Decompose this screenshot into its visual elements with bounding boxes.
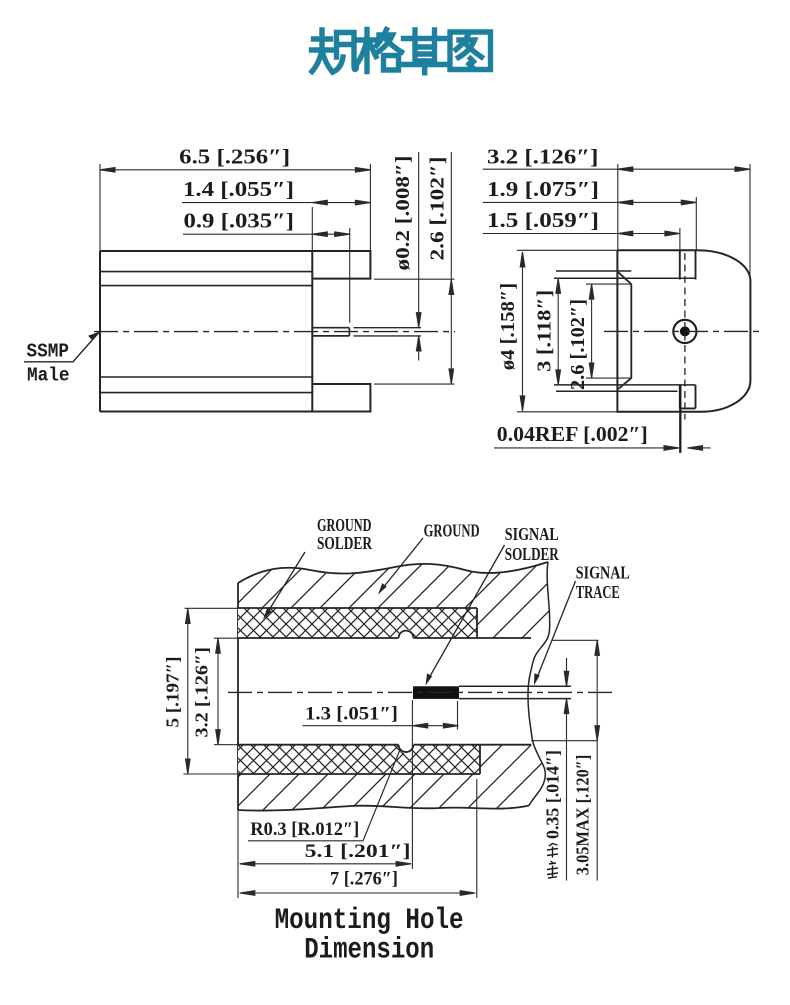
svg-text:SIGNAL: SIGNAL xyxy=(576,563,630,583)
pin extension lines to dia0.2 dim xyxy=(354,328,422,336)
dim 6.5 line xyxy=(100,168,370,173)
centerline bottom view xyxy=(228,691,612,693)
horizontal edge lines right view xyxy=(554,271,696,391)
dim 7 xyxy=(238,779,477,898)
ground solder band bottom (crosshatch) xyxy=(238,745,480,774)
char 格 xyxy=(357,30,402,72)
char 图 xyxy=(450,32,491,70)
dim dia0.2 vertical xyxy=(416,152,421,361)
mounting slot interior (white) xyxy=(238,638,560,745)
dim 1.9 xyxy=(483,197,697,250)
svg-text:0.35 [.014″]: 0.35 [.014″] xyxy=(543,750,563,839)
signal pin circle xyxy=(673,320,696,343)
dim 3.2 vertical xyxy=(214,638,238,745)
center pin xyxy=(312,328,349,336)
svg-text:GROUND: GROUND xyxy=(424,521,480,541)
dim 6.5 extension lines xyxy=(100,164,370,251)
extension lines top edge / bottom edge for dia4 xyxy=(517,250,701,411)
svg-text:6.5 [.256″]: 6.5 [.256″] xyxy=(179,145,290,169)
svg-text:0.9 [.035″]: 0.9 [.035″] xyxy=(184,209,295,233)
horizontal centerline right view xyxy=(604,330,762,332)
dim 1.4 line xyxy=(182,200,370,251)
dim 5.1 xyxy=(240,862,411,867)
svg-text:ø0.2 [.008″]: ø0.2 [.008″] xyxy=(392,156,414,271)
body outline xyxy=(100,251,370,412)
dim 3.05MAX xyxy=(531,640,600,880)
dim 3.2 top xyxy=(483,164,750,279)
PCB torn right edge xyxy=(528,562,550,806)
svg-text:SIGNAL: SIGNAL xyxy=(505,524,559,544)
dim 2.6 vertical (right view) xyxy=(586,284,631,378)
svg-text:1.9 [.075″]: 1.9 [.075″] xyxy=(487,177,599,201)
PCB top wavy outline xyxy=(238,562,548,583)
svg-text:3.2 [.126″]: 3.2 [.126″] xyxy=(487,145,598,169)
svg-text:R0.3 [R.012″]: R0.3 [R.012″] xyxy=(250,819,359,840)
dim 2.6 vertical (left view) xyxy=(374,152,455,384)
dim 0.35 (trace thickness) xyxy=(564,658,569,881)
svg-text:Dimension: Dimension xyxy=(304,934,434,968)
dim 5 vertical xyxy=(183,608,238,774)
svg-text:5 [.197″]: 5 [.197″] xyxy=(163,657,183,728)
signal trace lines xyxy=(459,686,571,698)
centerline left view xyxy=(94,331,455,333)
signal solder block (black) xyxy=(413,686,459,699)
svg-text:3.2 [.126″]: 3.2 [.126″] xyxy=(192,647,212,738)
svg-text:1.4 [.055″]: 1.4 [.055″] xyxy=(183,177,294,201)
svg-text:0.04REF [.002″]: 0.04REF [.002″] xyxy=(497,422,648,446)
svg-text:ø4 [.158″]: ø4 [.158″] xyxy=(497,283,519,371)
slot top edge with notch arc xyxy=(238,631,531,638)
svg-text:Male: Male xyxy=(27,365,70,387)
slot bottom edge with notch arc xyxy=(238,745,531,752)
inner cavity profile with chamfers xyxy=(618,272,631,389)
flange top (end-on) xyxy=(680,250,696,279)
ground solder band top (crosshatch) xyxy=(238,608,477,638)
char 规 xyxy=(312,30,357,72)
band edges top xyxy=(238,608,477,638)
flange bottom (end-on) xyxy=(680,385,696,409)
svg-text:1.5 [.059″]: 1.5 [.059″] xyxy=(487,208,599,232)
svg-text:3 [.118″]: 3 [.118″] xyxy=(534,290,556,372)
svg-text:SOLDER: SOLDER xyxy=(505,544,560,564)
dim 1.5 xyxy=(483,228,680,250)
svg-text:SSMP: SSMP xyxy=(27,341,70,363)
svg-text:2.6 [.102″]: 2.6 [.102″] xyxy=(567,299,589,390)
svg-text:7 [.276″]: 7 [.276″] xyxy=(330,869,398,890)
signal pin center dot xyxy=(680,326,690,336)
PCB bottom wavy outline xyxy=(238,806,529,811)
R0.3 notch bottom (white relief) xyxy=(399,739,414,754)
title 规格草图 (drawn strokes) xyxy=(312,30,491,73)
shell outline (D shape) xyxy=(617,250,750,412)
svg-text:2.6 [.102″]: 2.6 [.102″] xyxy=(427,157,449,261)
thick offset line 0.04 xyxy=(679,385,681,453)
svg-text:SOLDER: SOLDER xyxy=(317,533,373,553)
band edges bottom xyxy=(238,745,480,774)
svg-text:TRACE: TRACE xyxy=(576,582,620,602)
CJK 参考 small glyphs xyxy=(547,844,558,879)
dim 0.9 line xyxy=(183,228,350,323)
PCB substrate hatched area xyxy=(238,562,550,811)
vertical centerline (dashed) through pin xyxy=(684,253,686,420)
body inner lines xyxy=(100,272,312,393)
dim 0.04REF xyxy=(494,446,711,451)
svg-text:5.1 [.201″]: 5.1 [.201″] xyxy=(305,841,411,862)
svg-text:1.3 [.051″]: 1.3 [.051″] xyxy=(305,704,398,725)
dim 3 vertical xyxy=(556,278,561,385)
char 草 xyxy=(404,30,447,73)
R0.3 notch top (white relief) xyxy=(399,629,414,644)
dim 1.3 xyxy=(303,700,459,869)
svg-text:GROUND: GROUND xyxy=(317,515,372,535)
svg-text:3.05MAX [.120″]: 3.05MAX [.120″] xyxy=(573,755,593,876)
PCB left edge xyxy=(237,583,239,810)
dim dia4 vertical xyxy=(520,252,525,411)
